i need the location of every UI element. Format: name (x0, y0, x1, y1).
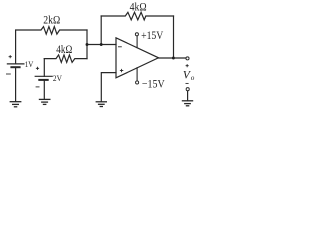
svg-text:+15V: +15V (141, 29, 164, 42)
svg-text:2kΩ: 2kΩ (43, 14, 60, 27)
svg-text:1V: 1V (25, 59, 34, 69)
svg-text:−15V: −15V (142, 78, 165, 91)
svg-text:o: o (191, 74, 195, 82)
svg-text:4kΩ: 4kΩ (56, 43, 72, 56)
svg-text:4kΩ: 4kΩ (130, 0, 147, 13)
svg-text:2V: 2V (53, 73, 63, 83)
